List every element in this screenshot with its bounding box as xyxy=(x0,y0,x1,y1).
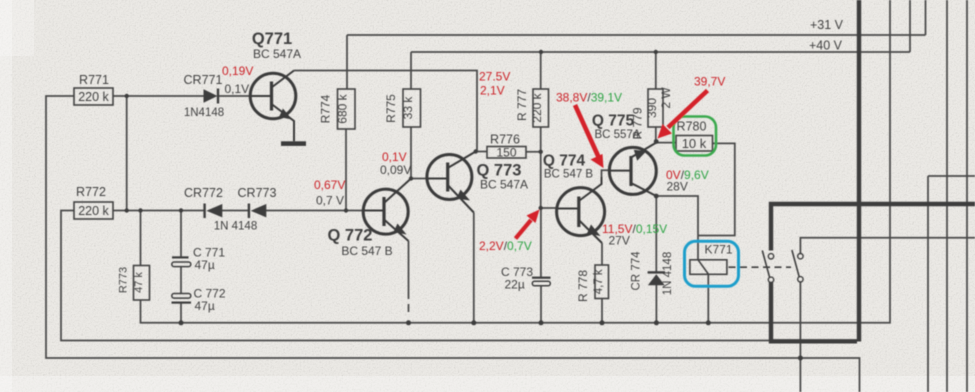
svg-text:Q 774: Q 774 xyxy=(543,153,586,170)
wire thick module boundary bottom xyxy=(771,283,857,342)
svg-text:R774: R774 xyxy=(318,94,332,123)
wire R771 to CR771 to Q771 xyxy=(113,95,250,97)
resistor R773 xyxy=(134,266,150,301)
wire long vertical right B xyxy=(966,0,968,392)
resistor R772 xyxy=(74,202,113,219)
green highlight box around R780 xyxy=(674,117,717,156)
svg-text:CR773: CR773 xyxy=(238,186,277,200)
svg-text:BC 547A: BC 547A xyxy=(480,178,528,192)
svg-text:BC 547 B: BC 547 B xyxy=(544,169,594,181)
relay K771 coil xyxy=(690,260,727,275)
red annotation arrow to Q774 base node xyxy=(516,210,540,239)
svg-text:1N4148: 1N4148 xyxy=(184,107,224,119)
wire thick module boundary right xyxy=(857,0,861,342)
svg-text:47µ: 47µ xyxy=(195,258,215,272)
capacitor C771 xyxy=(172,256,191,266)
svg-text:0,1V: 0,1V xyxy=(225,82,250,96)
node R774 bias junction xyxy=(344,208,348,212)
relay contact 2 circles xyxy=(798,254,803,282)
wire R771 left + left border bus xyxy=(46,96,860,392)
svg-text:2,2V/0,7V: 2,2V/0,7V xyxy=(479,239,532,253)
wire C771 C772 branch xyxy=(180,211,182,323)
wire R776 to R777 node xyxy=(526,151,541,153)
wire R780 right to relay link xyxy=(698,143,735,235)
wire switch2 riser and top feed xyxy=(800,238,975,392)
svg-text:2,1V: 2,1V xyxy=(480,84,505,98)
wire Q773 collector node to R776 xyxy=(476,151,487,153)
svg-text:BC 547 B: BC 547 B xyxy=(341,244,392,258)
svg-text:CR771: CR771 xyxy=(184,73,223,87)
relay contact 1 circles xyxy=(768,254,773,283)
base wires Q771 Q772 Q773 Q774 xyxy=(250,96,579,211)
svg-text:R 778: R 778 xyxy=(576,270,590,302)
wire +31V rail xyxy=(347,0,926,89)
svg-text:47µ: 47µ xyxy=(195,299,215,313)
svg-text:Q 772: Q 772 xyxy=(328,227,373,245)
svg-text:220 k: 220 k xyxy=(78,204,109,218)
node Q772 emitter bus junction xyxy=(406,320,411,325)
svg-text:220 k: 220 k xyxy=(530,92,544,122)
transistor Q774 xyxy=(557,177,605,243)
svg-text:47 k: 47 k xyxy=(133,272,145,293)
wire Q772 emitter dashed end xyxy=(408,304,410,312)
svg-text:220 k: 220 k xyxy=(78,90,109,104)
svg-text:R 777: R 777 xyxy=(515,89,529,121)
svg-text:R771: R771 xyxy=(79,73,109,87)
wire right corner net x928 xyxy=(928,176,975,392)
svg-text:0,7 V: 0,7 V xyxy=(316,194,344,208)
node Q773 emitter bus junction xyxy=(471,320,476,325)
node Q772 collector / Q773 base xyxy=(409,176,413,180)
svg-text:39,7V: 39,7V xyxy=(694,75,725,89)
node R779 rail tap xyxy=(654,50,658,54)
svg-text:33 k: 33 k xyxy=(401,96,415,120)
svg-text:R772: R772 xyxy=(76,185,106,199)
svg-text:+40 V: +40 V xyxy=(809,39,843,53)
transistor Q772 xyxy=(363,179,411,242)
svg-text:K771: K771 xyxy=(704,243,732,257)
wire R772 left + lower bus xyxy=(61,211,770,341)
svg-text:27.5V: 27.5V xyxy=(479,70,510,84)
wire R777 branch down to Q774 base and C773 xyxy=(541,52,557,323)
wire R772 to diodes to Q772 base xyxy=(113,210,364,212)
node C773 bus junction xyxy=(539,320,544,325)
wire R774 to Q772 base node xyxy=(345,129,347,211)
resistor R777 xyxy=(533,89,549,127)
node R771 output junction xyxy=(125,94,129,98)
node relay coil bus junction xyxy=(706,320,711,325)
node R776 / R777 junction xyxy=(539,150,543,154)
wire Q773 emitter down xyxy=(473,213,475,323)
resistor R778 xyxy=(595,265,609,299)
wire node R771/R772 vertical xyxy=(126,96,128,211)
resistor R771 xyxy=(74,88,113,105)
node Q774 base / C773 xyxy=(539,206,543,210)
node C771 tap junction xyxy=(179,208,183,212)
wire relay coil bottom to bus xyxy=(707,274,709,323)
svg-text:BC 547A: BC 547A xyxy=(253,47,301,61)
node CR774 bus junction xyxy=(654,320,659,325)
transistor Q775 (PNP) xyxy=(609,143,656,196)
svg-text:R773: R773 xyxy=(118,267,130,293)
resistor R779 xyxy=(648,89,663,127)
svg-text:1N 4148: 1N 4148 xyxy=(214,221,257,233)
svg-text:22µ: 22µ xyxy=(505,278,525,292)
capacitor C773 xyxy=(532,277,551,286)
wire Q771 collector to Q773 collector node xyxy=(294,71,477,152)
wire thick module boundary top xyxy=(771,204,975,251)
svg-text:390: 390 xyxy=(645,98,659,118)
resistor R775 xyxy=(403,89,421,127)
wire CR774 branch xyxy=(655,196,657,323)
red annotation arrow to R779 bottom node xyxy=(658,91,708,139)
svg-text:+31 V: +31 V xyxy=(810,18,844,32)
resistor R776 xyxy=(487,147,526,159)
node C772 bus junction xyxy=(179,320,184,325)
svg-text:0,67V: 0,67V xyxy=(314,178,345,192)
svg-text:0,19V: 0,19V xyxy=(222,64,253,78)
node R773 tap junction xyxy=(138,208,142,212)
node R778 bus junction xyxy=(600,320,605,325)
node Q775 emitter / R779 / R780 xyxy=(654,139,659,144)
svg-text:Q771: Q771 xyxy=(252,30,292,48)
blue highlight box around K771 xyxy=(685,241,739,286)
wire R780 left xyxy=(656,142,676,144)
svg-text:CR 774: CR 774 xyxy=(631,251,643,291)
ground below Q771 xyxy=(281,141,306,146)
svg-text:Q 775: Q 775 xyxy=(592,113,635,130)
resistor R774 xyxy=(338,89,356,129)
wire Q772 emitter down xyxy=(408,241,410,299)
svg-text:R776: R776 xyxy=(490,133,520,147)
svg-text:R775: R775 xyxy=(384,94,398,123)
diode CR773 xyxy=(248,204,267,219)
transistor Q773 xyxy=(427,152,476,213)
diode CR772 xyxy=(203,204,222,219)
transistor Q771 xyxy=(250,71,296,142)
svg-text:0,09V: 0,09V xyxy=(380,163,411,177)
diode CR771 xyxy=(204,89,220,104)
svg-text:150: 150 xyxy=(496,146,516,160)
svg-text:2 W: 2 W xyxy=(659,87,673,109)
wire Q774 collector to Q775 base xyxy=(602,170,610,177)
wire +40V rail xyxy=(411,0,910,89)
svg-text:38,8V/39,1V: 38,8V/39,1V xyxy=(556,91,622,105)
svg-text:0,1V: 0,1V xyxy=(382,150,407,164)
resistor R780 xyxy=(676,136,713,152)
node Q773 collector / R776 xyxy=(474,149,478,153)
wire R773 taps and ground bus xyxy=(141,0,891,323)
node switch riser junction xyxy=(798,356,803,361)
wire R775 bottom to Q772 collector / Q773 base node xyxy=(411,127,428,179)
wire Q774 emitter to R778 xyxy=(601,243,603,323)
svg-text:CR772: CR772 xyxy=(184,186,223,200)
node Q775 collector / CR774 / relay xyxy=(654,194,659,199)
capacitor C772 xyxy=(172,294,192,304)
red annotation arrow to Q775 base node xyxy=(575,105,604,168)
svg-text:680 k: 680 k xyxy=(336,93,350,123)
svg-text:4,7 k: 4,7 k xyxy=(593,269,605,294)
wire long vertical right A xyxy=(946,0,948,392)
relay actuator dashed link xyxy=(729,266,792,268)
svg-text:R 779: R 779 xyxy=(631,107,645,139)
node R777 rail tap xyxy=(539,50,543,54)
svg-text:1N 4148: 1N 4148 xyxy=(662,252,674,295)
svg-text:27V: 27V xyxy=(609,234,630,248)
svg-text:28V: 28V xyxy=(667,180,688,194)
relay contact 1 lever xyxy=(762,251,769,278)
diode CR774 xyxy=(648,271,665,285)
scan light edges xyxy=(0,376,975,392)
wire R779 vertical xyxy=(655,52,657,142)
relay contact 2 lever xyxy=(792,250,799,277)
svg-text:R780: R780 xyxy=(677,120,707,134)
node R772 output junction xyxy=(125,208,129,212)
wire Q775 collector node to relay coil xyxy=(656,196,698,260)
svg-text:10 k: 10 k xyxy=(682,136,707,151)
